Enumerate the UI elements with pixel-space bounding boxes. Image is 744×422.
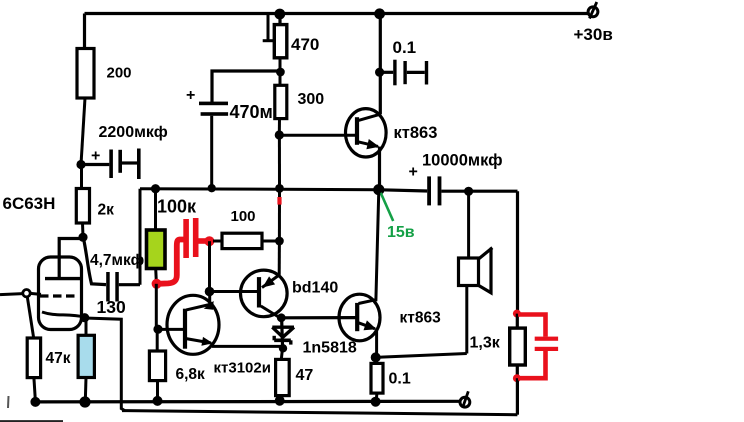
wire node to 300 — [279, 72, 282, 85]
node dot top rail at кт863 — [374, 8, 385, 19]
node dot emitter junction — [371, 352, 381, 362]
node dot rail1 left — [30, 397, 40, 407]
capacitor 10000мкф — [380, 152, 518, 206]
stray mark left edge — [7, 396, 10, 408]
wire кт3102и collector link — [186, 292, 210, 310]
wire 300 bottom to base node — [278, 119, 281, 135]
wire mid rail down to 100 node — [278, 188, 281, 241]
capacitor 2200мкф — [81, 124, 168, 179]
svg-text:15в: 15в — [387, 224, 415, 241]
svg-text:1,3к: 1,3к — [470, 335, 501, 352]
wire кт3102и emitter to diode node — [212, 345, 281, 348]
node dot base top кт863 — [275, 130, 284, 139]
wire speaker top — [467, 191, 470, 258]
wire speaker to emitter node — [376, 354, 467, 358]
svg-text:0.1: 0.1 — [389, 371, 411, 388]
wire base кт3102и — [157, 328, 184, 331]
node dot mid rail at 100к — [151, 184, 160, 193]
svg-text:+: + — [91, 148, 100, 165]
node base junction dot кт3102и — [153, 325, 162, 334]
wire anode lead — [59, 239, 83, 279]
node anode junction dot — [78, 233, 87, 242]
transistor кт863 top — [279, 109, 437, 157]
node dot mid rail at divider — [275, 184, 284, 193]
svg-text:130: 130 — [97, 297, 126, 317]
resistor 100 — [213, 208, 279, 249]
wire input to grid — [30, 293, 41, 294]
node red dot right — [204, 236, 214, 246]
wire output node down to collector — [376, 190, 379, 300]
speaker — [459, 248, 493, 293]
resistor 300 — [275, 85, 324, 118]
resistor 47к — [27, 338, 71, 378]
wire top supply rail — [85, 12, 589, 15]
wire feedback bottom rail — [122, 411, 517, 415]
resistor 470 with tap — [263, 14, 320, 58]
wire collector up to rail — [379, 14, 382, 115]
node cathode junction dot — [80, 313, 89, 322]
wire mid rail — [140, 189, 380, 190]
wire input to 47к — [27, 297, 33, 338]
svg-text:1n5818: 1n5818 — [303, 340, 357, 357]
label 15в green pointer — [381, 193, 415, 241]
wire diode node to base кт863 — [281, 316, 356, 319]
wire emitter down to output node — [378, 147, 381, 190]
stray mark bottom left — [0, 420, 63, 422]
capacitor 0.1 (top) — [380, 38, 429, 86]
node dot top rail at divider — [274, 9, 285, 20]
node dot 0.1 cap tap — [375, 68, 384, 77]
node junction dot left — [76, 160, 85, 169]
node red tick on wire — [277, 197, 281, 205]
resistor 1,3к — [470, 314, 526, 379]
svg-text:10000мкф: 10000мкф — [422, 152, 503, 170]
svg-text:100: 100 — [231, 208, 256, 225]
node input terminal circle — [23, 290, 30, 297]
wire bd140 base — [210, 290, 258, 293]
wire base node down to mid rail — [278, 135, 281, 188]
wire 4,7мкф up to mid rail — [139, 189, 142, 285]
resistor 0.1 (bottom) — [371, 357, 411, 401]
svg-text:300: 300 — [298, 91, 325, 108]
svg-text:2к: 2к — [98, 202, 115, 219]
node dot diode cathode — [279, 344, 287, 352]
wire rail to 470 — [278, 14, 281, 25]
wire 47к bottom — [34, 378, 36, 402]
transistor bd140 — [240, 270, 338, 319]
wire red node down to base node — [155, 284, 158, 329]
node collector join blob — [204, 301, 214, 310]
svg-text:кт863: кт863 — [394, 124, 438, 142]
wire down to bd140 emitter — [278, 241, 281, 275]
svg-text:100к: 100к — [157, 197, 197, 217]
wire left vertical from rail to R 200 — [83, 14, 86, 50]
capacitor 4,7мкф — [84, 239, 145, 302]
svg-text:0.1: 0.1 — [393, 38, 417, 57]
resistor 47 — [276, 348, 314, 400]
wire R200 bottom to node — [81, 98, 85, 165]
node dot rail1 under 6,8к — [153, 396, 163, 406]
resistor 130 cathode (blue) — [78, 297, 126, 401]
node terminal +30в — [574, 2, 613, 44]
svg-text:47к: 47к — [46, 350, 71, 367]
wire 2к bottom to anode node — [81, 223, 85, 237]
resistor 6,8к — [149, 329, 205, 401]
resistor 200 — [77, 49, 132, 99]
node terminal ground — [460, 391, 470, 408]
svg-text:кт863: кт863 — [400, 309, 442, 326]
wire 470 to node — [279, 58, 282, 72]
svg-text:4,7мкф: 4,7мкф — [90, 252, 144, 269]
capacitor red replacement (left) — [158, 218, 208, 284]
node dot mid rail at 470м — [208, 184, 216, 192]
wire input line — [0, 294, 23, 295]
resistor 2к — [76, 189, 114, 224]
svg-text:200: 200 — [107, 65, 132, 82]
capacitor red (right) — [518, 315, 558, 379]
svg-text:кт3102и: кт3102и — [214, 360, 271, 377]
node junction dot bd140 base — [205, 287, 215, 297]
svg-text:+30в: +30в — [574, 25, 613, 44]
wire speaker bottom — [465, 286, 468, 354]
wire feedback from cathode — [85, 318, 125, 411]
svg-text:+: + — [409, 164, 418, 181]
wire 1,3к bottom to rail2 — [516, 378, 519, 415]
resistor 100к (green) — [147, 189, 198, 284]
wire bottom ground rail — [35, 400, 460, 404]
node dot rail1 under 0.1 — [371, 397, 381, 407]
wire emitter down — [375, 329, 378, 357]
node output dot (big) — [373, 184, 384, 195]
wire red node down to bd140 base node — [208, 241, 211, 291]
node dot 470/300 — [276, 68, 285, 77]
transistor кт863 bottom — [339, 294, 441, 341]
node dot speaker branch — [464, 187, 473, 196]
svg-text:bd140: bd140 — [292, 280, 338, 297]
node red dot 1,3к bottom — [513, 374, 521, 382]
svg-text:47: 47 — [296, 367, 314, 384]
svg-text:470м: 470м — [230, 102, 273, 122]
node red dot 1,3к top — [513, 310, 521, 318]
svg-text:+: + — [186, 87, 195, 104]
svg-text:6С63Н: 6С63Н — [3, 194, 56, 213]
node red dot left — [152, 279, 162, 289]
svg-text:2200мкф: 2200мкф — [99, 124, 168, 141]
node dot 100 right — [275, 237, 284, 246]
svg-text:470: 470 — [291, 35, 319, 54]
tube 6С63Н — [3, 194, 87, 330]
svg-text:6,8к: 6,8к — [176, 366, 206, 383]
diode 1n5818 — [272, 313, 357, 356]
transistor кт3102и — [167, 295, 271, 376]
capacitor 470м — [186, 71, 279, 188]
wire right vertical from cap — [516, 191, 519, 313]
wire node to R 2к — [80, 165, 83, 189]
node dot rail1 under 47 — [275, 396, 285, 406]
node dot below blue resistor — [79, 396, 90, 407]
